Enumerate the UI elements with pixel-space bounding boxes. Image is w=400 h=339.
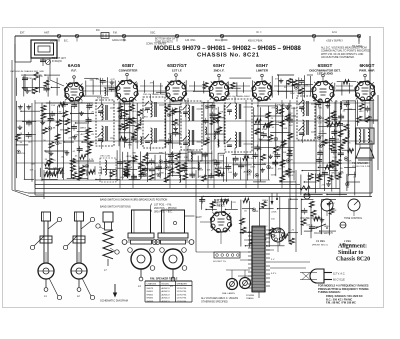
svg-text:10K: 10K [58,143,62,145]
wire vertical [41,103,43,182]
ground [28,105,30,107]
node junction [267,125,269,127]
svg-text:9H085: 9H085 [147,298,154,300]
wire horizontal [17,134,36,136]
svg-text:AVC: AVC [359,110,364,113]
wire horizontal [71,113,94,115]
svg-text:LIMITER: LIMITER [256,68,269,72]
svg-text:33K: 33K [339,136,343,138]
svg-text:60 CYCLE: 60 CYCLE [333,279,345,282]
capacitor C [131,175,137,177]
resistor R [338,130,343,136]
wire vertical [212,201,214,211]
svg-text:BAND SWITCH IS SHOWN IN 3RD (B: BAND SWITCH IS SHOWN IN 3RD (BROADCAST) … [100,199,167,202]
node antenna terminal [14,36,16,44]
svg-text:33K: 33K [36,88,40,90]
wire grid cap [261,77,263,82]
resistor R [173,119,178,125]
wire vertical [100,78,102,95]
svg-text:R.F.: R.F. [71,68,77,72]
resistor R [33,88,38,94]
switch S2 on-off [316,224,326,228]
node junction [345,158,347,160]
wire grid cap [218,77,220,82]
capacitor C [274,154,280,156]
node bus connector 1 [57,34,60,37]
wire vertical [153,81,155,94]
svg-text:GANG COND.: GANG COND. [112,39,127,42]
wire horizontal [226,209,238,211]
transformer T4 3RD I.F. TRANS side leads [244,106,253,108]
ground [125,137,127,139]
wire vertical [172,151,174,176]
wire horizontal [139,167,149,169]
wire horizontal [337,80,356,82]
wire vertical [230,201,232,209]
resistor R [230,83,235,89]
svg-text:6.8K: 6.8K [206,138,211,140]
wire vertical [203,81,205,94]
wire secondary run 1 [270,261,310,263]
alignment tool A2 cap [75,212,84,221]
svg-text:4.7K: 4.7K [153,163,158,165]
svg-text:47K: 47K [289,113,293,115]
wire horizontal [120,117,137,119]
resistor R [268,135,273,141]
wire horizontal [307,74,313,76]
capacitor C [238,164,244,166]
wire vertical [267,106,269,180]
transformer T7 power - laminated core [252,226,265,292]
wire horizontal [318,132,326,134]
svg-text:39K: 39K [258,149,262,151]
wire horizontal [278,74,294,76]
wire horizontal [322,198,336,200]
transformer T5 DISCRIMINATOR TRANS [297,96,315,140]
capacitor C [210,113,216,115]
node bus connector 2 [75,34,78,37]
capacitor C [48,118,54,120]
wire horizontal [232,153,254,155]
resistor R [288,133,293,139]
capacitor C [124,173,130,175]
svg-text:33K: 33K [254,211,258,213]
node bus connector 6 [312,34,315,37]
resistor R [330,144,335,150]
resistor R [80,170,85,176]
ground [50,151,52,153]
svg-text:15K: 15K [51,105,55,107]
resistor R [89,170,95,174]
wire vertical [288,103,290,177]
capacitor C [202,153,208,155]
resistor R [329,160,334,166]
svg-text:39K: 39K [132,153,136,155]
svg-text:6.3 V.: 6.3 V. [271,273,277,275]
resistor R [243,198,249,202]
wire vertical [63,101,65,180]
wire grid cap [126,76,128,81]
svg-text:47K: 47K [318,151,322,153]
wire horizontal [201,160,224,162]
wire vertical [334,83,336,92]
resistor R [132,132,137,138]
capacitor C [225,166,231,168]
wire vertical [107,77,109,95]
svg-text:470K: 470K [172,173,178,175]
svg-text:+250 V SUPPLY: +250 V SUPPLY [326,41,343,43]
svg-text:15K: 15K [75,134,79,136]
resistor R [309,201,314,207]
resistor R [282,234,288,238]
wire horizontal [76,122,88,124]
svg-text:470K: 470K [27,78,33,80]
capacitor C1 gang section [101,33,109,39]
capacitor C [189,173,195,175]
ground [289,149,291,151]
wire vertical [341,82,343,95]
svg-text:9H081: 9H081 [147,291,154,293]
capacitor C [209,104,215,106]
resistor R [343,137,348,143]
svg-text:220K: 220K [271,211,277,213]
svg-text:6S8GT: 6S8GT [318,63,333,68]
wire frame right vertical [369,36,371,197]
resistor R [285,114,290,120]
svg-text:220K: 220K [250,167,256,169]
resistor R [119,137,125,141]
wire vertical [23,76,25,96]
wire AVC run [16,140,372,142]
resistor R [344,124,349,130]
resistor R [299,88,304,94]
svg-text:VACUUM TUBE VOLTMETER.: VACUUM TUBE VOLTMETER. [321,56,355,59]
wire vertical [252,80,254,95]
svg-text:12 IN P.M.: 12 IN P.M. [177,298,187,300]
resistor R [44,80,49,86]
wire horizontal [240,232,259,234]
svg-text:6.8K: 6.8K [289,122,294,124]
wire horizontal [229,87,241,89]
wire vertical [236,82,238,96]
wire vertical [159,155,161,178]
resistor R [130,105,135,111]
coil L [198,162,199,165]
wire vertical [92,79,94,94]
resistor R [183,174,188,180]
transformer T1 R.F. COIL primary coil [102,104,104,107]
resistor R [279,108,284,114]
svg-text:3RD I.F. TRANS 455KC: 3RD I.F. TRANS 455KC [227,95,251,98]
wire horizontal [24,178,34,180]
svg-text:AVC: AVC [289,124,294,127]
wire horizontal [269,115,283,117]
resistor R [286,169,291,175]
wire B+ bus 2 [35,188,340,190]
wire vertical [136,103,138,149]
resistor R [327,122,333,126]
svg-text:39K: 39K [318,107,322,109]
wire vertical [129,101,131,149]
svg-text:47K: 47K [271,108,275,110]
wire grid cap [322,77,324,82]
svg-text:9H079: 9H079 [147,288,154,290]
svg-text:MODEL: MODEL [162,284,171,286]
resistor R50 bleeder [300,186,310,190]
wire horizontal [289,232,298,234]
wire vertical [171,108,173,149]
capacitor C [43,87,49,89]
wire antenna bus [15,35,360,37]
wire vertical [227,81,229,92]
wire horizontal [289,115,296,117]
resistor R [119,124,124,130]
svg-text:47K: 47K [247,175,251,177]
wire vertical [203,102,205,145]
resistor R [125,161,130,167]
capacitor C [329,138,335,140]
capacitor C [131,137,137,139]
plug P1 AC line [310,269,324,283]
svg-text:SPEAKER: SPEAKER [177,283,188,286]
resistor R [261,154,266,160]
node bus connector 4 [175,34,178,37]
resistor R [63,111,68,117]
resistor R [44,172,50,176]
wire loop to grid [49,58,51,80]
resistor R [216,113,221,119]
svg-text:OTHERWISE SPECIFIED.: OTHERWISE SPECIFIED. [201,301,229,303]
wire horizontal [278,90,293,92]
ground [262,168,264,170]
svg-text:1ST AUDIO: 1ST AUDIO [317,72,334,76]
transformer T3 2ND I.F. TRANS primary coil [188,105,190,108]
wire vertical [56,106,58,179]
svg-text:12 A: 12 A [332,31,337,34]
svg-text:12 IN P.M.: 12 IN P.M. [177,294,187,296]
wire horizontal [329,170,338,172]
trimmer capacitor T4 3RD I.F. TRANS top [227,103,232,108]
svg-text:15K: 15K [288,155,292,157]
wire horizontal [124,168,137,170]
svg-text:68K: 68K [133,123,137,125]
resistor R [139,161,144,167]
wire vertical [56,78,58,96]
capacitor C [203,119,209,121]
resistor R [175,153,180,159]
wire vertical [109,169,111,180]
svg-text:6.8K: 6.8K [133,161,138,163]
transformer T4 3RD I.F. TRANS [225,99,252,152]
page border frame (decorative scan edge) [3,28,384,308]
wire horizontal [365,100,375,102]
wire ps frame [195,170,197,252]
svg-text:9H088: 9H088 [147,301,154,303]
transformer T1 R.F. COIL side leads [110,107,114,109]
wire vertical [271,76,273,98]
wire horizontal [254,123,279,125]
svg-text:39K: 39K [348,109,352,111]
transformer T4 3RD I.F. TRANS secondary coil [235,132,237,135]
speaker SP1 [356,148,374,158]
coil L [276,106,277,109]
wire vertical [315,103,317,179]
wire rect leads [200,221,211,223]
svg-text:6SH7: 6SH7 [213,63,225,68]
node junction [295,87,297,89]
lamp I1 pilot [227,279,238,290]
wire horizontal [180,167,202,169]
wire left rail 2 [34,100,36,188]
capacitor C [199,199,205,201]
wire vertical [31,79,33,94]
svg-text:470K: 470K [126,156,132,158]
tube V2 6SB7 [117,81,138,102]
ground [328,202,330,204]
svg-text:F.M.: 88 MC / FM 108 MC: F.M.: 88 MC / FM 108 MC [326,301,356,305]
svg-text:2ND I.F.: 2ND I.F. [214,68,225,72]
resistor R [218,172,224,176]
svg-text:2.2K: 2.2K [333,157,338,159]
alignment tool A1 shaft [43,221,45,263]
wire horizontal [327,194,347,196]
svg-text:BOTTOM VIEW OF: BOTTOM VIEW OF [155,39,176,41]
svg-text:68K: 68K [281,167,285,169]
svg-text:ANT.: ANT. [44,31,50,35]
wire vertical [71,106,73,179]
alignment tool A3 tip [107,259,109,266]
wire vertical [322,102,324,177]
socket phono [271,228,285,242]
wire horizontal [304,230,312,232]
svg-text:47K: 47K [289,159,293,161]
wire vertical [292,79,294,99]
wire vertical [78,101,80,179]
resistor R [177,167,182,173]
svg-text:47K: 47K [319,100,323,102]
svg-text:IF REQ'D: IF REQ'D [52,61,62,63]
resistor R [274,146,279,152]
svg-text:470K: 470K [268,168,274,170]
resistor R [314,216,320,220]
coil L [105,88,106,91]
alignment tool A3 spring [103,230,113,259]
resistor R [359,104,364,110]
resistor R [52,172,58,176]
wire vertical [185,80,187,93]
svg-text:47K: 47K [150,82,154,84]
resistor R [165,176,170,182]
alignment tool A2 stem [78,279,80,287]
wire bus stub [123,38,125,42]
resistor R [80,166,85,172]
wire vertical [16,78,18,96]
trimmer canister L5 lugs [152,240,157,245]
svg-text:TUNING RANGES:: TUNING RANGES: [318,290,341,294]
svg-text:ALNICO: ALNICO [162,290,170,293]
potentiometer volume control [321,199,333,211]
resistor R [165,106,170,112]
svg-text:15K: 15K [291,85,295,87]
resistor R [45,162,51,166]
svg-text:15K: 15K [331,173,335,175]
capacitor C [149,168,155,170]
svg-text:DIAL LAMPS: DIAL LAMPS [222,292,235,295]
wire vertical [282,104,284,177]
svg-text:15K: 15K [326,175,330,177]
wire horizontal [258,146,275,148]
wire horizontal [321,142,340,144]
capacitor C [316,159,322,161]
wire vertical [279,197,281,246]
capacitor C3 [24,74,26,86]
svg-text:39K: 39K [278,148,282,150]
ground [328,182,330,184]
capacitor C [332,117,338,119]
svg-text:1MEG: 1MEG [58,173,64,175]
resistor R [308,174,313,180]
svg-text:6SB7: 6SB7 [122,63,134,68]
wire vertical [124,172,126,177]
wire vertical [47,76,49,96]
wire horizontal [213,175,224,177]
svg-text:RECT.: RECT. [217,204,226,208]
wire horizontal [124,141,132,143]
resistor R [339,144,344,150]
wire horizontal [254,115,266,117]
label band switch positions brace [151,204,152,212]
wire AVC bus [35,179,270,181]
wire horizontal [274,232,285,234]
wire horizontal [82,141,94,143]
wire vertical [217,153,219,176]
resistor R [80,155,86,159]
wire frame bottom double [30,196,372,198]
svg-text:4.7K: 4.7K [89,159,94,161]
capacitor C [86,119,92,121]
transformer T5 DISCRIMINATOR TRANS core [306,101,308,116]
wire horizontal [342,100,356,102]
alignment tool A2 nut [73,236,85,243]
wire horizontal [119,110,132,112]
tube V3 6SD7GT [166,81,186,101]
resistor R [49,142,54,148]
wire bus stub [176,38,178,42]
resistor R [86,149,91,155]
node junction [249,171,251,173]
wire horizontal [119,132,131,134]
svg-text:CONVERTER: CONVERTER [119,68,139,72]
resistor R [130,117,135,123]
capacitor C [272,161,278,163]
transformer T5 DISCRIMINATOR TRANS side leads [311,103,315,105]
capacitor C [168,160,174,162]
alignment tool A2 shaft [76,221,78,263]
svg-text:12K: 12K [45,168,49,170]
wire horizontal [320,230,336,232]
node bus connector 3 [122,34,125,37]
wire horizontal [23,120,36,122]
capacitor C [214,162,220,164]
svg-text:1MEG: 1MEG [337,173,343,175]
wire vertical [160,83,162,94]
wire bus stub [58,38,60,42]
ground [19,125,21,127]
wire horizontal [233,164,252,166]
ground [74,135,76,137]
wire horizontal [282,171,295,173]
resistor R [301,219,306,225]
